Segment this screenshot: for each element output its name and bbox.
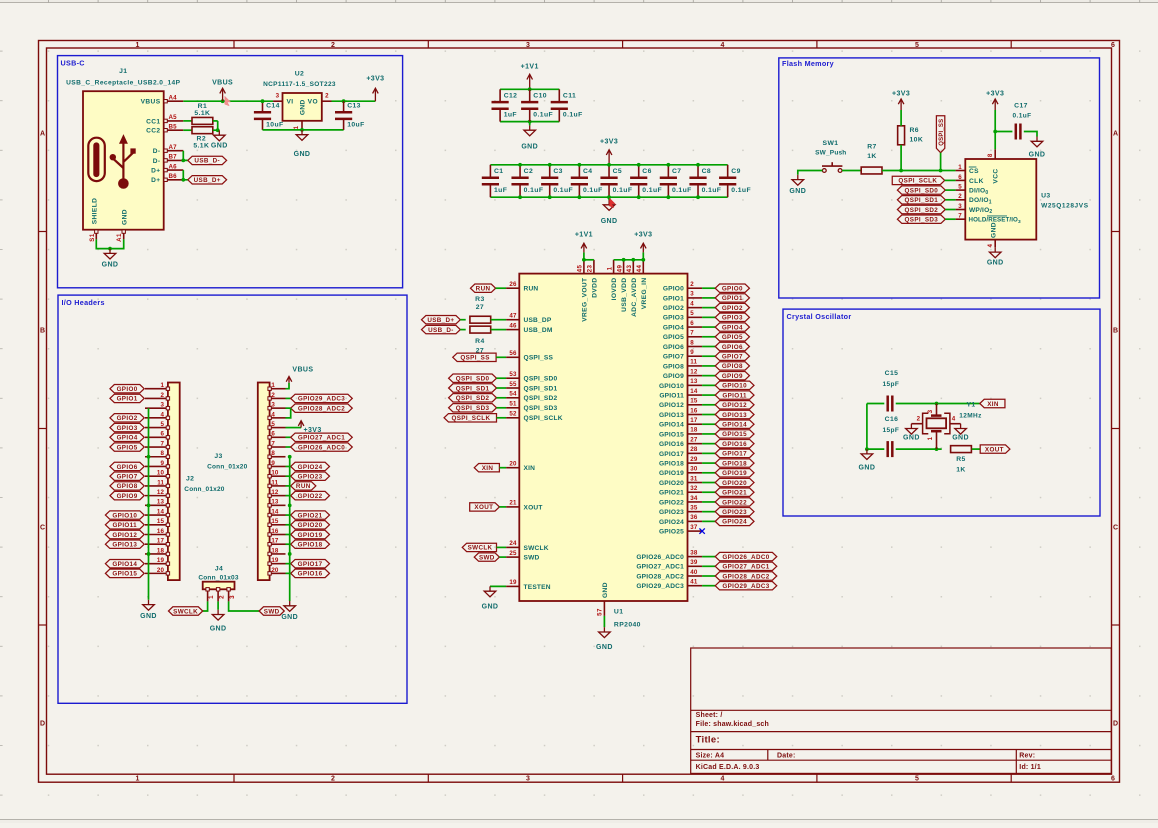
U1 pin 1 IOVDD bbox=[606, 260, 618, 301]
wire bbox=[497, 387, 507, 389]
U1 pin 20 XIN bbox=[506, 461, 535, 473]
svg-text:XIN: XIN bbox=[524, 465, 536, 472]
U1 pin 45 VREG_VOUT bbox=[577, 260, 589, 322]
J1 pin A1 GND bbox=[116, 230, 125, 242]
svg-text:GND: GND bbox=[299, 99, 306, 115]
svg-text:GND: GND bbox=[121, 209, 128, 225]
svg-text:GPIO1: GPIO1 bbox=[722, 295, 743, 302]
wire bbox=[497, 546, 507, 548]
junction bbox=[518, 195, 522, 199]
svg-text:23: 23 bbox=[587, 265, 594, 273]
svg-text:QSPI_SCLK: QSPI_SCLK bbox=[524, 415, 563, 422]
J3 pin 5 bbox=[268, 421, 286, 429]
svg-text:GND: GND bbox=[991, 222, 998, 238]
svg-text:QSPI_SD0: QSPI_SD0 bbox=[456, 376, 490, 383]
Y1 pin 2 bbox=[911, 416, 922, 424]
svg-text:SWCLK: SWCLK bbox=[173, 608, 198, 615]
svg-text:30: 30 bbox=[690, 466, 698, 473]
capacitor C16 bbox=[883, 416, 900, 457]
global label GPIO29_ADC3 at U1 bbox=[715, 582, 777, 591]
svg-text:GPIO6: GPIO6 bbox=[663, 344, 684, 351]
svg-text:0.1uF: 0.1uF bbox=[642, 187, 662, 194]
wire bbox=[702, 394, 715, 396]
svg-text:9: 9 bbox=[690, 349, 694, 356]
wire bbox=[702, 520, 715, 522]
svg-text:11: 11 bbox=[157, 479, 164, 486]
svg-text:GPIO24: GPIO24 bbox=[659, 519, 684, 526]
svg-text:VO: VO bbox=[308, 99, 318, 106]
wire bbox=[499, 506, 506, 508]
wire bbox=[702, 336, 715, 338]
svg-text:17: 17 bbox=[157, 538, 165, 545]
svg-text:6: 6 bbox=[271, 431, 275, 438]
global label SWD at J4 bbox=[259, 607, 284, 616]
capacitor C6 bbox=[630, 165, 662, 197]
J3 pin 18 bbox=[268, 547, 286, 555]
global label GPIO3 at J2 bbox=[110, 423, 144, 432]
global label GPIO9 at U1 bbox=[715, 371, 749, 380]
resistor R3 texts bbox=[475, 296, 485, 311]
J2 pin 6 bbox=[145, 431, 170, 439]
svg-text:GPIO4: GPIO4 bbox=[722, 324, 743, 331]
J2 ground bus wire bbox=[148, 408, 150, 600]
svg-text:U1: U1 bbox=[614, 609, 624, 616]
svg-text:GPIO0: GPIO0 bbox=[722, 286, 743, 293]
svg-text:Title:: Title: bbox=[696, 735, 720, 746]
capacitor C7 bbox=[660, 165, 692, 197]
+3V3 decoupling rail bbox=[490, 165, 727, 197]
global label RUN at U1 bbox=[470, 284, 495, 293]
U1 pin 57 GND bbox=[597, 582, 610, 616]
svg-text:25: 25 bbox=[509, 550, 517, 557]
J3 pin 15 bbox=[268, 518, 286, 526]
svg-text:1: 1 bbox=[136, 42, 140, 49]
svg-text:13: 13 bbox=[271, 499, 279, 506]
wire bbox=[702, 384, 715, 386]
global label GPIO16 at U1 bbox=[715, 439, 754, 448]
svg-text:GPIO11: GPIO11 bbox=[722, 392, 747, 399]
wire bbox=[497, 377, 507, 379]
wire bbox=[229, 601, 260, 611]
global label GPIO10 at U1 bbox=[715, 381, 754, 390]
svg-text:1: 1 bbox=[160, 382, 164, 389]
wire bbox=[286, 436, 291, 438]
wire bbox=[491, 329, 506, 331]
svg-text:C17: C17 bbox=[1014, 102, 1028, 109]
svg-text:7: 7 bbox=[271, 440, 275, 447]
wire bbox=[867, 403, 884, 405]
wire bbox=[183, 100, 273, 102]
capacitor C14 bbox=[254, 101, 284, 130]
junction bbox=[637, 163, 641, 167]
U1 pin 34 GPIO22 bbox=[659, 495, 702, 507]
svg-text:7: 7 bbox=[690, 330, 694, 337]
junction bbox=[108, 247, 112, 251]
svg-text:+1V1: +1V1 bbox=[575, 232, 593, 239]
global label GPIO14 at J2 bbox=[105, 559, 144, 568]
svg-text:GPIO12: GPIO12 bbox=[659, 402, 684, 409]
U1 pin 14 GPIO11 bbox=[659, 388, 702, 400]
svg-text:10: 10 bbox=[157, 470, 165, 477]
wire bbox=[460, 329, 465, 331]
svg-text:RUN: RUN bbox=[296, 483, 311, 490]
ground GND J4 bbox=[210, 610, 227, 633]
global label GPIO27_ADC1 at J3 bbox=[291, 433, 353, 442]
svg-text:2: 2 bbox=[325, 93, 329, 100]
wire bbox=[896, 448, 942, 450]
svg-text:45: 45 bbox=[577, 265, 584, 273]
ground GND Y1 pin4 bbox=[952, 424, 969, 442]
svg-text:A5: A5 bbox=[169, 114, 178, 121]
global label QSPI_SD1 at U1 bbox=[449, 384, 497, 393]
svg-text:44: 44 bbox=[636, 265, 643, 273]
ground GND C17 bbox=[1029, 137, 1046, 159]
svg-text:B7: B7 bbox=[169, 154, 178, 161]
wire bbox=[286, 408, 291, 418]
svg-text:1: 1 bbox=[927, 436, 934, 440]
svg-text:2: 2 bbox=[331, 776, 335, 783]
junction bbox=[631, 258, 635, 262]
power +3V3 at U1 bbox=[634, 232, 652, 253]
global label XIN at crystal bbox=[980, 399, 1005, 408]
J3 pin 20 bbox=[268, 567, 286, 575]
svg-text:13: 13 bbox=[690, 378, 698, 385]
J2 pin 5 bbox=[145, 421, 170, 429]
wire bbox=[702, 307, 715, 309]
svg-text:Conn_01x20: Conn_01x20 bbox=[184, 486, 224, 493]
global label GPIO29_ADC3 at J3 bbox=[291, 394, 353, 403]
junction bbox=[147, 455, 151, 459]
power +1V1 rail bbox=[521, 64, 539, 90]
U1 pin 24 SWCLK bbox=[506, 540, 549, 552]
svg-text:GPIO19: GPIO19 bbox=[298, 532, 323, 539]
svg-text:GND: GND bbox=[140, 613, 157, 620]
global label QSPI_SD2 at U3 bbox=[897, 205, 945, 214]
global label GPIO24 at J3 bbox=[291, 462, 330, 471]
svg-text:B: B bbox=[40, 328, 45, 335]
resistor R7 bbox=[861, 143, 882, 174]
svg-text:2: 2 bbox=[331, 42, 335, 49]
U1 pin 54 QSPI_SD2 bbox=[506, 391, 557, 403]
junction bbox=[939, 169, 943, 173]
svg-text:GPIO13: GPIO13 bbox=[722, 412, 747, 419]
global label RUN at J3 bbox=[291, 482, 316, 491]
wire bbox=[499, 467, 506, 469]
ground GND U3 bbox=[987, 247, 1004, 266]
junction bbox=[342, 99, 346, 103]
resistor R2 bbox=[192, 127, 213, 150]
frame column numbers bbox=[136, 42, 1116, 783]
wire bbox=[702, 443, 715, 445]
wire bbox=[499, 556, 506, 558]
svg-text:GPIO14: GPIO14 bbox=[112, 561, 137, 568]
svg-text:GPIO2: GPIO2 bbox=[663, 305, 684, 312]
global label QSPI_SD1 at U3 bbox=[897, 196, 945, 205]
svg-text:4: 4 bbox=[160, 411, 164, 418]
svg-text:16: 16 bbox=[271, 528, 279, 535]
capacitor C17 bbox=[1013, 102, 1032, 139]
svg-text:6: 6 bbox=[1111, 42, 1115, 49]
svg-text:10uF: 10uF bbox=[266, 121, 283, 128]
J1 pin B5 CC2 bbox=[146, 123, 183, 134]
svg-text:12MHz: 12MHz bbox=[959, 412, 982, 419]
svg-text:GND: GND bbox=[102, 262, 119, 269]
junction bbox=[221, 99, 225, 103]
wire bbox=[702, 287, 715, 289]
J3 pin 13 bbox=[268, 499, 286, 507]
svg-text:10K: 10K bbox=[910, 137, 924, 144]
svg-text:XIN: XIN bbox=[482, 465, 494, 472]
junction bbox=[288, 552, 292, 556]
svg-text:2: 2 bbox=[690, 281, 694, 288]
J3 pin 9 bbox=[268, 460, 286, 468]
svg-text:51: 51 bbox=[509, 401, 517, 408]
ground GND Y1 pin2 bbox=[903, 424, 920, 442]
global label GPIO16 at J3 bbox=[291, 569, 330, 578]
wire bbox=[286, 514, 291, 516]
svg-text:SW_Push: SW_Push bbox=[815, 150, 846, 157]
svg-text:SWD: SWD bbox=[264, 608, 280, 615]
U1 pin 44 VREG_IN bbox=[636, 260, 648, 309]
svg-text:XOUT: XOUT bbox=[985, 446, 1004, 453]
U1 pin 23 DVDD bbox=[587, 260, 599, 298]
wire bbox=[994, 132, 996, 150]
resistor R3 bbox=[470, 316, 491, 323]
svg-text:CLK: CLK bbox=[969, 178, 984, 185]
junction bbox=[899, 169, 903, 173]
svg-text:24: 24 bbox=[509, 540, 517, 547]
U1 pin 26 RUN bbox=[506, 281, 538, 293]
U3 pin 8 VCC bbox=[987, 149, 995, 159]
svg-text:GPIO27_ADC1: GPIO27_ADC1 bbox=[636, 564, 684, 571]
mcu U1 RP2040 bbox=[519, 274, 687, 629]
wire bbox=[901, 170, 941, 172]
svg-text:GPIO11: GPIO11 bbox=[113, 522, 138, 529]
U1 pin 40 GPIO28_ADC2 bbox=[636, 569, 702, 581]
U1 pin 28 GPIO17 bbox=[659, 446, 702, 458]
capacitor C9 bbox=[719, 165, 751, 197]
svg-text:C15: C15 bbox=[885, 370, 899, 377]
svg-text:12: 12 bbox=[271, 489, 279, 496]
svg-text:20: 20 bbox=[271, 567, 279, 574]
svg-text:GPIO23: GPIO23 bbox=[722, 509, 747, 516]
resistor R4 texts bbox=[475, 338, 485, 355]
svg-text:52: 52 bbox=[509, 411, 517, 418]
global label GPIO26_ADC0 at J3 bbox=[291, 443, 353, 452]
global label XOUT at crystal bbox=[980, 445, 1010, 454]
svg-text:GPIO27_ADC1: GPIO27_ADC1 bbox=[298, 435, 345, 442]
wire bbox=[945, 179, 956, 181]
J2 pin 14 bbox=[145, 508, 170, 516]
svg-text:GND: GND bbox=[1029, 152, 1046, 159]
svg-text:1K: 1K bbox=[867, 153, 877, 160]
global label USB_D- at J1 bbox=[188, 156, 227, 165]
U2 pin 3 VI bbox=[273, 93, 282, 102]
global label GPIO12 at J2 bbox=[105, 530, 144, 539]
regulator U2 NCP1117-1.5_SOT223 bbox=[263, 71, 336, 121]
global label GPIO5 at J2 bbox=[110, 443, 144, 452]
svg-text:1: 1 bbox=[136, 776, 140, 783]
U1 pin 53 QSPI_SD0 bbox=[506, 371, 557, 383]
svg-text:VBUS: VBUS bbox=[292, 366, 313, 373]
wire bbox=[896, 403, 980, 405]
svg-text:5: 5 bbox=[160, 421, 164, 428]
global label GPIO17 at U1 bbox=[715, 449, 754, 458]
global label GPIO27_ADC1 at U1 bbox=[715, 562, 777, 571]
svg-text:A6: A6 bbox=[169, 163, 178, 170]
svg-text:C12: C12 bbox=[504, 92, 518, 99]
J2 pin 8 bbox=[145, 450, 170, 458]
J2 pin 10 bbox=[145, 470, 170, 478]
global label GPIO14 at U1 bbox=[715, 420, 754, 429]
U1 pin 4 GPIO2 bbox=[663, 300, 702, 312]
svg-text:B: B bbox=[1113, 328, 1118, 335]
frame row letters bbox=[40, 131, 1118, 728]
svg-text:GPIO0: GPIO0 bbox=[117, 386, 138, 393]
power +3V3 USB section bbox=[366, 76, 384, 102]
svg-text:41: 41 bbox=[690, 579, 698, 586]
svg-text:GPIO18: GPIO18 bbox=[659, 460, 684, 467]
svg-text:RUN: RUN bbox=[524, 286, 539, 293]
svg-text:USB_D+: USB_D+ bbox=[427, 317, 454, 324]
J3 pin 2 bbox=[268, 392, 286, 400]
U3 pin 5 DI/IO0 bbox=[956, 184, 989, 196]
wire bbox=[702, 423, 715, 425]
svg-text:4: 4 bbox=[721, 42, 725, 49]
wire bbox=[603, 616, 605, 627]
svg-text:14: 14 bbox=[157, 508, 165, 515]
svg-text:GPIO21: GPIO21 bbox=[722, 490, 747, 497]
wire bbox=[702, 452, 715, 454]
svg-text:D+: D+ bbox=[151, 177, 160, 184]
svg-text:+1V1: +1V1 bbox=[521, 64, 539, 71]
svg-text:D+: D+ bbox=[151, 168, 160, 175]
svg-text:5: 5 bbox=[958, 184, 962, 191]
junction bbox=[865, 447, 869, 451]
junction bbox=[300, 128, 304, 132]
junction bbox=[935, 447, 939, 451]
J3 pin 16 bbox=[268, 528, 286, 536]
svg-text:CC2: CC2 bbox=[146, 128, 160, 135]
svg-text:GPIO10: GPIO10 bbox=[112, 512, 137, 519]
wire bbox=[702, 414, 715, 416]
U1 pin 35 GPIO23 bbox=[659, 504, 702, 516]
svg-text:GPIO1: GPIO1 bbox=[663, 295, 684, 302]
svg-text:GPIO22: GPIO22 bbox=[659, 499, 684, 506]
svg-text:GPIO20: GPIO20 bbox=[722, 480, 747, 487]
svg-text:QSPI_SCLK: QSPI_SCLK bbox=[898, 178, 937, 185]
svg-text:QSPI_SD2: QSPI_SD2 bbox=[524, 395, 558, 402]
no-connect cross GPIO25 bbox=[699, 528, 704, 533]
global label GPIO17 at J3 bbox=[291, 559, 330, 568]
svg-text:18: 18 bbox=[271, 547, 279, 554]
svg-text:GPIO9: GPIO9 bbox=[722, 373, 743, 380]
svg-text:QSPI_SD3: QSPI_SD3 bbox=[905, 217, 939, 224]
global label GPIO7 at U1 bbox=[715, 352, 749, 361]
svg-text:GPIO28_ADC2: GPIO28_ADC2 bbox=[298, 405, 345, 412]
svg-text:GPIO19: GPIO19 bbox=[659, 470, 684, 477]
global label GPIO0 at U1 bbox=[715, 284, 749, 293]
svg-text:15: 15 bbox=[690, 398, 698, 405]
ground GND +1V1 rail bbox=[521, 125, 538, 150]
wire bbox=[583, 252, 585, 259]
title block bbox=[691, 648, 1112, 773]
wire bbox=[945, 218, 955, 220]
J2 pin 16 bbox=[145, 528, 170, 536]
svg-text:QSPI_SD1: QSPI_SD1 bbox=[905, 197, 939, 204]
J2 pin 18 bbox=[145, 547, 170, 555]
svg-text:GPIO2: GPIO2 bbox=[117, 415, 138, 422]
svg-text:3: 3 bbox=[690, 291, 694, 298]
svg-text:20: 20 bbox=[157, 567, 165, 574]
svg-text:QSPI_SD2: QSPI_SD2 bbox=[456, 395, 490, 402]
wire bbox=[183, 170, 188, 180]
global label GPIO5 at U1 bbox=[715, 333, 749, 342]
global label GPIO12 at U1 bbox=[715, 401, 754, 410]
svg-text:15: 15 bbox=[157, 518, 165, 525]
ground GND J2 bbox=[140, 600, 157, 620]
svg-text:R4: R4 bbox=[475, 338, 485, 345]
ground GND +3V3 rail bbox=[601, 200, 618, 225]
svg-text:5.1K: 5.1K bbox=[193, 143, 209, 150]
U3 pin 7 HOLD/RESET/IO3 bbox=[956, 213, 1021, 225]
J2 pin 20 bbox=[145, 567, 170, 575]
svg-text:10uF: 10uF bbox=[347, 121, 364, 128]
svg-text:1: 1 bbox=[293, 125, 300, 129]
svg-text:40: 40 bbox=[690, 569, 698, 576]
global label GPIO23 at U1 bbox=[715, 507, 754, 516]
global label QSPI_SCLK at U3 bbox=[892, 176, 944, 185]
svg-text:17: 17 bbox=[690, 417, 698, 424]
svg-text:49: 49 bbox=[616, 265, 623, 273]
global label GPIO19 at U1 bbox=[715, 469, 754, 478]
J2 pin 4 bbox=[145, 411, 170, 419]
svg-text:GPIO27_ADC1: GPIO27_ADC1 bbox=[722, 564, 769, 571]
connector J1 USB_C_Receptacle_USB2.0_14P bbox=[66, 68, 181, 230]
wire bbox=[286, 427, 302, 429]
svg-text:GPIO4: GPIO4 bbox=[663, 324, 684, 331]
svg-text:+3V3: +3V3 bbox=[304, 427, 322, 434]
junction bbox=[666, 195, 670, 199]
svg-text:GND: GND bbox=[859, 465, 876, 472]
junction bbox=[622, 258, 626, 262]
svg-text:GPIO8: GPIO8 bbox=[722, 363, 743, 370]
J2 pin 17 bbox=[145, 538, 170, 546]
svg-text:1: 1 bbox=[958, 164, 962, 171]
svg-text:0.1uF: 0.1uF bbox=[613, 187, 633, 194]
wire bbox=[702, 491, 715, 493]
svg-text:19: 19 bbox=[157, 557, 165, 564]
U1 pin 25 SWD bbox=[506, 550, 539, 562]
svg-text:GPIO10: GPIO10 bbox=[722, 383, 747, 390]
svg-text:GPIO11: GPIO11 bbox=[659, 392, 684, 399]
svg-text:15pF: 15pF bbox=[883, 381, 900, 388]
svg-text:QSPI_SD3: QSPI_SD3 bbox=[524, 405, 558, 412]
wire bbox=[217, 121, 219, 130]
svg-text:XOUT: XOUT bbox=[524, 504, 543, 511]
svg-text:GPIO29_ADC3: GPIO29_ADC3 bbox=[636, 583, 684, 590]
junction bbox=[181, 178, 185, 182]
global label GPIO19 at J3 bbox=[291, 530, 330, 539]
U3 pin 3 WP/IO2 bbox=[956, 203, 993, 215]
J2 pin 12 bbox=[145, 489, 170, 497]
ground GND SW1 bbox=[789, 175, 806, 195]
svg-text:XIN: XIN bbox=[987, 401, 999, 408]
canvas bottom scrollbar strip bbox=[0, 820, 1158, 823]
svg-text:12: 12 bbox=[690, 368, 698, 375]
wire bbox=[945, 209, 955, 211]
U1 pin 41 GPIO29_ADC3 bbox=[636, 579, 702, 591]
